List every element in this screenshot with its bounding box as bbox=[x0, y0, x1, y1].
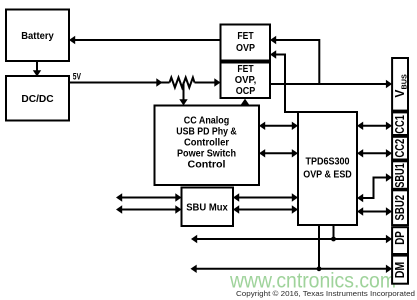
svg-text:SBU2: SBU2 bbox=[393, 195, 407, 221]
copyright notice bbox=[236, 289, 415, 298]
svg-text:5V: 5V bbox=[73, 72, 81, 82]
svg-text:Battery: Battery bbox=[21, 30, 54, 42]
svg-text:TPD6S300: TPD6S300 bbox=[306, 156, 350, 168]
wire branch VBUS up to FET OVP input bbox=[270, 36, 319, 84]
wire 5V net from DC/DC to FET OVP,OCP bbox=[69, 78, 221, 86]
wire CC Analog to FET OVP,OCP gate bbox=[241, 99, 249, 106]
wire SBU Mux to TPD6S300 upper bbox=[233, 193, 298, 201]
wire TPD6S300 to SBU1 pin (stepped) bbox=[357, 173, 392, 202]
junction DP bbox=[331, 237, 336, 242]
wire SBU stub upper to SBU Mux bbox=[116, 193, 182, 201]
wire FET OVP output to battery bbox=[69, 36, 221, 44]
svg-text:DM: DM bbox=[393, 262, 407, 279]
svg-text:CC1: CC1 bbox=[393, 115, 407, 134]
wire SBU stub lower to SBU Mux bbox=[116, 205, 182, 213]
resistor R (series on 5V line) bbox=[170, 78, 195, 88]
svg-text:Control: Control bbox=[188, 159, 226, 171]
connector pin DM bbox=[392, 256, 408, 284]
wire VBUS net: FET OVP,OCP output to VBUS pin bbox=[270, 80, 392, 88]
wire CC Analog to TPD6S300 lower bbox=[259, 149, 298, 157]
svg-text:SBU Mux: SBU Mux bbox=[186, 202, 228, 214]
block DC/DC bbox=[6, 76, 69, 121]
svg-text:OCP: OCP bbox=[236, 85, 256, 97]
wire TPD6S300 corner to FET OVP second input bbox=[270, 50, 298, 112]
block TPD6S300 OVP & ESD bbox=[298, 112, 357, 225]
connector pin SBU2 bbox=[392, 190, 408, 225]
connector pin CC1 bbox=[392, 112, 408, 135]
wire TPD6S300 to SBU2 pin bbox=[357, 207, 392, 215]
svg-text:Copyright © 2016, Texas Instru: Copyright © 2016, Texas Instruments Inco… bbox=[236, 289, 415, 298]
wire DP net bbox=[191, 225, 392, 243]
wire branch 5V to CC Analog controller bbox=[179, 83, 187, 106]
connector pin VBUS bbox=[392, 58, 408, 111]
svg-text:FET: FET bbox=[237, 30, 254, 42]
svg-text:CC2: CC2 bbox=[393, 139, 407, 158]
svg-text:DC/DC: DC/DC bbox=[21, 93, 54, 105]
wire DM net bbox=[191, 225, 393, 273]
connector pin SBU1 bbox=[392, 161, 408, 189]
wire battery to dcdc bbox=[33, 61, 41, 77]
svg-text:OVP & ESD: OVP & ESD bbox=[303, 169, 352, 181]
wire SBU Mux to TPD6S300 lower bbox=[233, 205, 298, 213]
svg-text:OVP: OVP bbox=[236, 42, 255, 54]
wire CC Analog to TPD6S300 upper bbox=[259, 122, 298, 130]
wire TPD6S300 to CC1 pin bbox=[357, 122, 392, 130]
svg-text:SBU1: SBU1 bbox=[393, 163, 407, 188]
connector pin DP bbox=[392, 227, 408, 254]
wire TPD6S300 to CC2 pin bbox=[357, 149, 392, 157]
block SBU Mux bbox=[182, 188, 234, 227]
block FET OVP bbox=[221, 25, 271, 61]
watermark www.cntronics.com bbox=[229, 270, 396, 293]
block Battery bbox=[6, 10, 69, 62]
block FET OVP,OCP bbox=[221, 63, 271, 99]
block CC Analog USB PD Phy & Controller Power Switch Control bbox=[155, 106, 260, 186]
net label 5V bbox=[73, 72, 81, 82]
svg-text:DP: DP bbox=[393, 231, 407, 245]
junction DM bbox=[317, 266, 322, 271]
connector pin CC2 bbox=[392, 137, 408, 160]
